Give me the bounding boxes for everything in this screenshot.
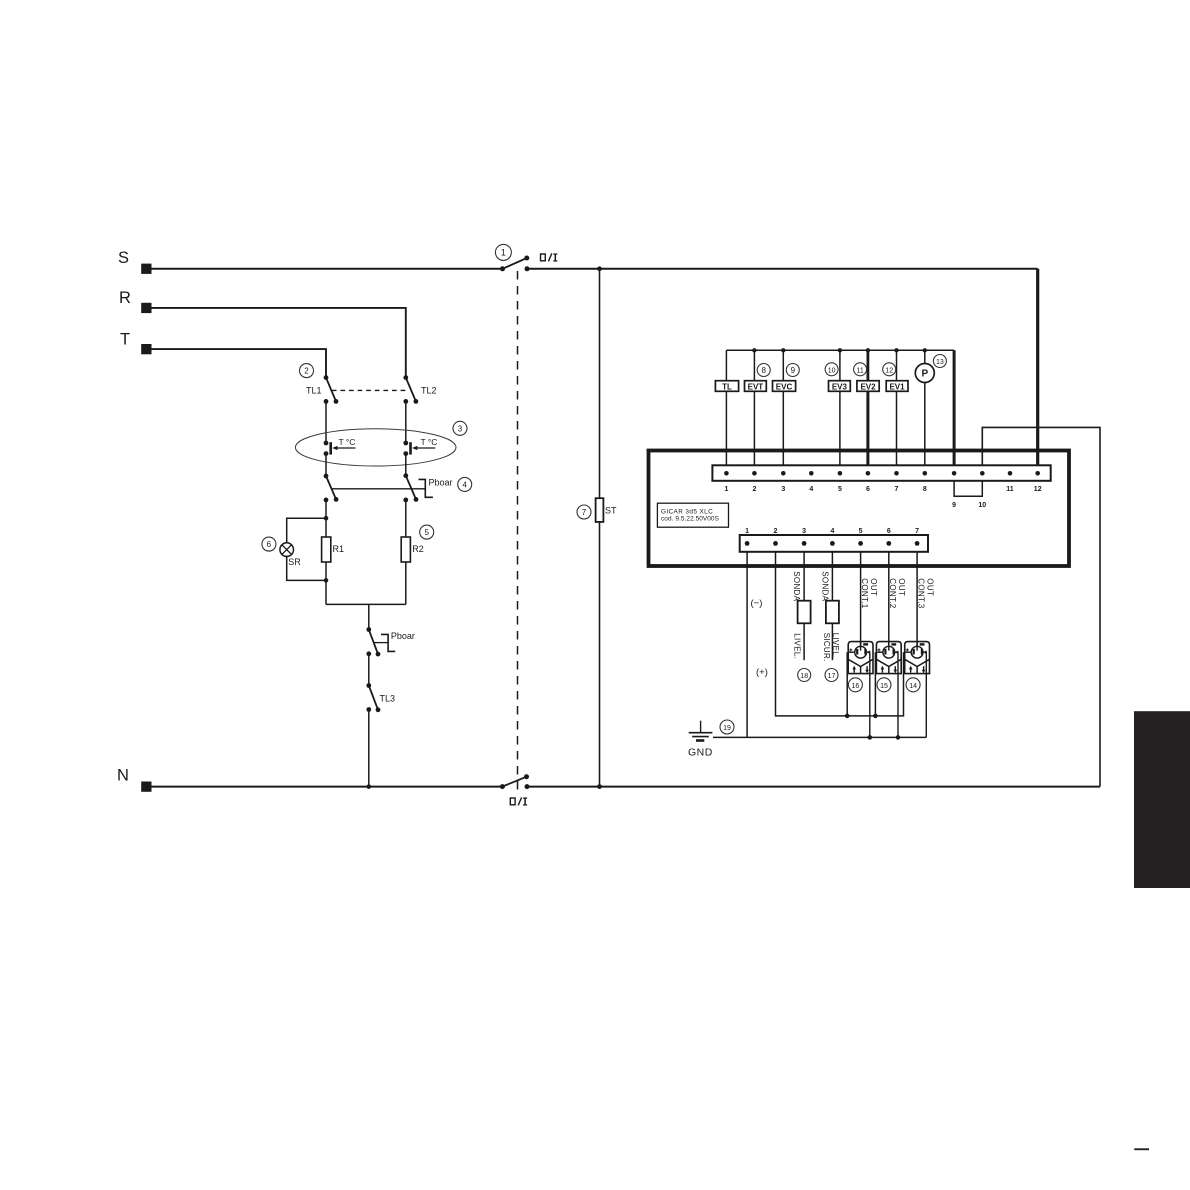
- wire Pboar to R1: [325, 500, 327, 537]
- callout 6: [262, 537, 276, 551]
- wire bottom rail: [326, 603, 406, 605]
- callout 15: [877, 678, 891, 692]
- switch Pboar left pole: [324, 474, 339, 503]
- callout 3: [453, 421, 467, 435]
- callout 10: [825, 363, 838, 376]
- switch TL1: [306, 375, 338, 404]
- svg-text:SONDA: SONDA: [792, 571, 801, 601]
- wire S rail right: [527, 268, 1038, 270]
- callout 4: [458, 477, 472, 491]
- svg-text:GICAR 3d5 XLC: GICAR 3d5 XLC: [661, 508, 713, 515]
- callout 13: [933, 355, 946, 368]
- svg-text:7: 7: [895, 486, 899, 493]
- svg-text:SR: SR: [288, 557, 301, 567]
- flowmeter OUT CONT.1 (16): [848, 642, 873, 738]
- probe LIVEL SICUR (17): [822, 601, 840, 662]
- lamp SR: [280, 543, 301, 567]
- switch TL3: [366, 683, 395, 712]
- svg-text:GND: GND: [688, 747, 713, 759]
- svg-text:6: 6: [267, 540, 272, 549]
- callout 14: [906, 678, 920, 692]
- safety thermostat group ellipse: [295, 429, 456, 466]
- svg-text:EVT: EVT: [748, 382, 764, 391]
- svg-text:13: 13: [936, 359, 944, 366]
- node N: [117, 767, 152, 792]
- pump P: [915, 348, 934, 465]
- node GND comp15: [896, 735, 901, 740]
- svg-text:2: 2: [304, 367, 309, 376]
- main switch O/I (bottom): [500, 774, 530, 789]
- valve EV3: [829, 348, 851, 465]
- svg-text:T °C: T °C: [421, 437, 438, 447]
- svg-text:7: 7: [915, 528, 919, 535]
- wire N rail: [146, 786, 502, 788]
- terminal strip upper: [712, 465, 1050, 481]
- svg-text:EV2: EV2: [860, 382, 876, 391]
- callout 5: [420, 525, 434, 539]
- switch Pboar right pole: [403, 473, 418, 502]
- terminal numbers lower: [745, 528, 919, 535]
- valve EVT: [745, 348, 767, 465]
- svg-text:17: 17: [828, 673, 836, 680]
- callout 17: [825, 669, 838, 682]
- svg-text:T °C: T °C: [339, 437, 356, 447]
- svg-text:8: 8: [761, 366, 766, 375]
- thermostat contact right: [403, 437, 437, 456]
- node plus line comp16: [845, 714, 850, 719]
- node GND comp16: [868, 735, 873, 740]
- svg-text:TL3: TL3: [380, 693, 396, 703]
- label 0/I bottom: [510, 797, 527, 805]
- wire terminal 4 to probe: [831, 552, 833, 601]
- wire terminal 5 to flowmeter 16: [860, 552, 862, 647]
- wire comp15 plus riser: [874, 652, 876, 716]
- svg-text:19: 19: [723, 725, 731, 732]
- resistor R1: [322, 537, 344, 562]
- svg-text:9: 9: [952, 502, 956, 509]
- svg-text:2: 2: [774, 528, 778, 535]
- callout 11: [854, 363, 867, 376]
- svg-text:3: 3: [802, 528, 806, 535]
- wire SR branch top: [287, 518, 326, 543]
- callout 7: [577, 505, 591, 519]
- callout 9: [786, 364, 799, 377]
- svg-text:11: 11: [856, 367, 863, 374]
- callout 18: [798, 669, 811, 682]
- wire terminal 1 to GND: [746, 552, 748, 738]
- svg-text:18: 18: [800, 673, 808, 680]
- svg-text:SONDA: SONDA: [820, 571, 829, 601]
- wire Pboar to R2: [405, 500, 407, 537]
- svg-text:LIVEL.: LIVEL.: [793, 633, 802, 659]
- wire comp16 plus riser: [846, 652, 848, 716]
- node S: [118, 249, 152, 274]
- wire GND line: [713, 736, 926, 738]
- svg-text:4: 4: [830, 528, 834, 535]
- svg-text:N: N: [117, 767, 129, 785]
- flowmeter OUT CONT.3 (14): [905, 642, 930, 738]
- callout 12: [883, 363, 896, 376]
- svg-text:R1: R1: [333, 544, 345, 554]
- ground GND: [688, 721, 713, 759]
- svg-text:2: 2: [752, 486, 756, 493]
- svg-text:5: 5: [859, 528, 863, 535]
- svg-text:(−): (−): [751, 598, 763, 609]
- valve EV2: [857, 348, 879, 465]
- wire SR branch bottom: [287, 556, 326, 580]
- svg-text:S: S: [118, 249, 129, 267]
- node plus line comp15: [873, 714, 878, 719]
- wire terminal 6 to flowmeter 15: [888, 552, 890, 647]
- resistor R2: [401, 537, 424, 562]
- svg-text:EV1: EV1: [889, 382, 905, 391]
- dashed panel boundary: [517, 271, 519, 795]
- dashed link TL1-TL2: [332, 389, 406, 391]
- svg-text:10: 10: [828, 367, 836, 374]
- svg-text:R2: R2: [412, 544, 424, 554]
- svg-text:TL2: TL2: [421, 385, 437, 395]
- wire ST branch upper: [599, 269, 601, 498]
- svg-text:12: 12: [1034, 486, 1042, 493]
- wire TL2 to thermostat: [405, 401, 407, 443]
- switch Pboar 2: [366, 627, 415, 656]
- node ST bottom junction: [597, 784, 602, 789]
- svg-text:TL: TL: [722, 382, 732, 391]
- callout 1: [495, 244, 511, 260]
- black page tab: [1134, 711, 1190, 888]
- terminal numbers upper: [724, 486, 1041, 509]
- node T: [120, 331, 152, 355]
- wire thermostat to Pboar left: [325, 454, 327, 476]
- wire ST branch lower: [599, 522, 601, 787]
- svg-text:8: 8: [923, 486, 927, 493]
- svg-text:ST: ST: [605, 506, 617, 516]
- main switch O/I (top): [500, 256, 530, 272]
- svg-text:1: 1: [724, 486, 728, 493]
- svg-text:16: 16: [852, 683, 860, 690]
- label box GICAR 3d5 XLC: [657, 503, 728, 527]
- wire terminal 3 to probe: [803, 552, 805, 601]
- svg-text:14: 14: [909, 683, 917, 690]
- valve EVC: [773, 348, 796, 465]
- node SR branch top: [324, 516, 329, 521]
- svg-text:1: 1: [745, 528, 749, 535]
- svg-text:cod. 9.5.22.50V00S: cod. 9.5.22.50V00S: [661, 516, 719, 523]
- svg-text:15: 15: [880, 683, 888, 690]
- controller box GICAR: [649, 451, 1070, 567]
- svg-text:4: 4: [462, 480, 467, 489]
- svg-text:4: 4: [809, 486, 813, 493]
- callout 2: [300, 364, 314, 378]
- wire terminal 7 to flowmeter 14: [916, 552, 918, 647]
- node ST top junction: [597, 266, 602, 271]
- wire S rail: [146, 268, 503, 270]
- wire center stem: [368, 604, 370, 629]
- wire R2 bottom leg: [405, 562, 407, 604]
- valve EV1: [886, 348, 908, 465]
- node SR branch bottom: [324, 578, 329, 583]
- thermostat contact left: [324, 437, 356, 456]
- svg-text:10: 10: [978, 502, 986, 509]
- page dash mark: [1134, 1148, 1149, 1150]
- svg-text:3: 3: [458, 424, 463, 433]
- svg-text:6: 6: [887, 528, 891, 535]
- wire N rail right: [527, 786, 1100, 788]
- callout 16: [848, 678, 862, 692]
- lamp TL: [715, 350, 738, 465]
- svg-text:Pboar: Pboar: [391, 631, 415, 641]
- fuse ST: [596, 498, 617, 522]
- jumper terminals 9-10: [954, 481, 982, 497]
- svg-text:5: 5: [838, 486, 842, 493]
- svg-text:T: T: [120, 331, 130, 349]
- node TL3-N junction: [367, 784, 372, 789]
- wire bus to terminal 9: [953, 350, 956, 465]
- label 0/I top: [541, 253, 558, 261]
- svg-text:12: 12: [885, 367, 893, 374]
- svg-text:EV3: EV3: [832, 382, 848, 391]
- flowmeter OUT CONT.2 (15): [876, 642, 901, 738]
- svg-text:TL1: TL1: [306, 385, 322, 395]
- wire terminal 12 to S: [1036, 269, 1039, 466]
- svg-text:(+): (+): [756, 667, 768, 678]
- svg-text:3: 3: [781, 486, 785, 493]
- svg-text:7: 7: [582, 508, 587, 517]
- svg-text:LIVEL,SICUR.: LIVEL,SICUR.: [822, 633, 840, 662]
- wire neutral bus: [726, 349, 954, 351]
- svg-text:1: 1: [501, 248, 506, 258]
- terminal strip lower: [740, 535, 928, 552]
- svg-text:6: 6: [866, 486, 870, 493]
- node R: [119, 289, 152, 313]
- wire TL3 to N: [368, 710, 370, 787]
- wire thermostat to Pboar right: [405, 454, 407, 476]
- wire terminal 2 plus line: [776, 552, 904, 716]
- wire T rail: [146, 349, 326, 378]
- svg-text:EVC: EVC: [776, 382, 793, 391]
- Pboar mechanical link and actuator: [332, 477, 453, 497]
- probe LIVEL (18): [793, 601, 811, 661]
- wire R1 bottom leg: [325, 562, 327, 604]
- wire TL1 to thermostat: [325, 401, 327, 443]
- switch TL2: [403, 375, 436, 404]
- svg-text:R: R: [119, 289, 131, 307]
- svg-text:Pboar: Pboar: [429, 477, 453, 487]
- wire terminal 10 riser: [982, 427, 1100, 786]
- svg-text:P: P: [921, 369, 928, 380]
- svg-text:9: 9: [791, 366, 796, 375]
- callout 8: [757, 364, 770, 377]
- svg-text:11: 11: [1006, 486, 1014, 493]
- callout 19: [720, 720, 734, 734]
- svg-text:5: 5: [424, 528, 429, 537]
- wire R rail: [146, 308, 406, 378]
- wire Pboar2 to TL3: [368, 654, 370, 686]
